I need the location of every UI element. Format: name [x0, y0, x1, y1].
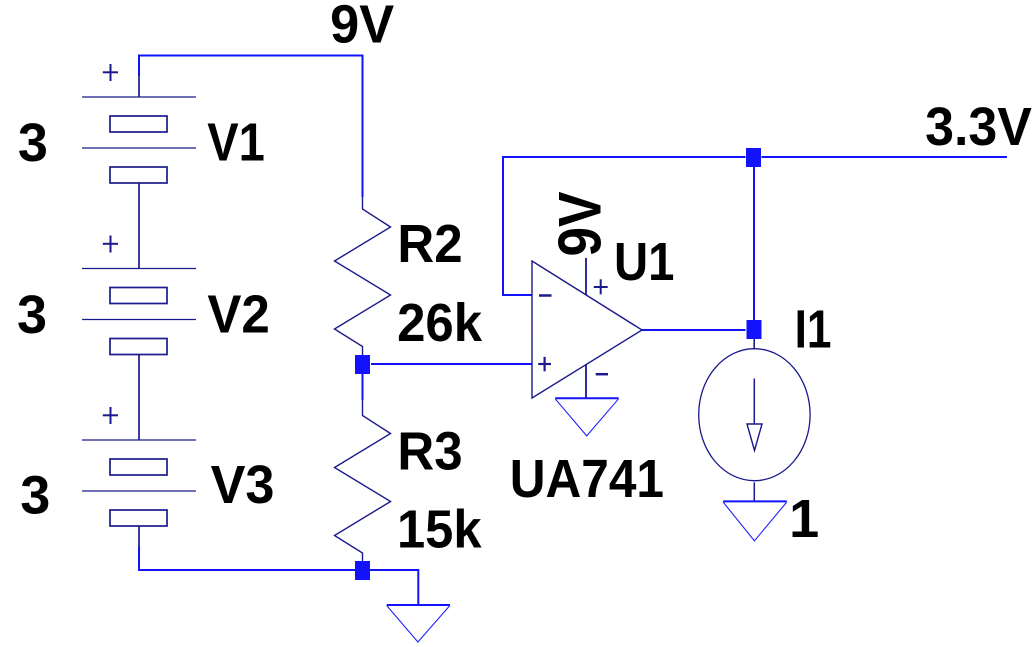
svg-text:I1: I1 — [795, 300, 832, 360]
svg-text:9V: 9V — [330, 0, 394, 55]
svg-text:V3: V3 — [211, 455, 275, 515]
svg-text:3: 3 — [20, 466, 50, 526]
svg-text:9V: 9V — [546, 192, 613, 257]
svg-text:3: 3 — [17, 285, 47, 345]
svg-text:R2: R2 — [397, 214, 462, 274]
svg-text:U1: U1 — [614, 232, 674, 292]
svg-text:15k: 15k — [397, 499, 482, 559]
svg-text:UA741: UA741 — [510, 449, 664, 509]
svg-text:3: 3 — [18, 113, 48, 173]
svg-text:3.3V: 3.3V — [925, 97, 1032, 157]
svg-text:1: 1 — [789, 489, 819, 549]
svg-text:26k: 26k — [397, 293, 483, 353]
svg-text:R3: R3 — [397, 421, 462, 481]
svg-text:V1: V1 — [207, 113, 265, 173]
svg-text:V2: V2 — [207, 285, 270, 345]
